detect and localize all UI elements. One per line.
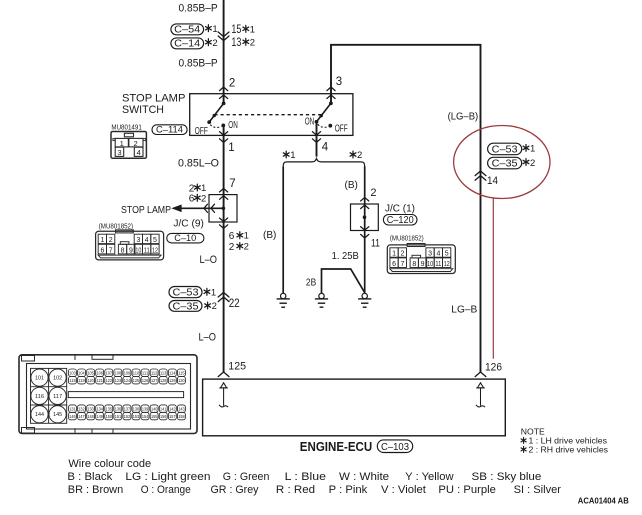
svg-text:OFF: OFF [195, 126, 208, 137]
svg-text:2: 2 [212, 38, 217, 49]
ECU internal pin symbol at 126 [476, 383, 485, 407]
middle blank slot [68, 392, 183, 398]
red highlight ellipse [454, 126, 550, 199]
ground *2 branch [358, 293, 371, 307]
pin 1 exit chevrons [220, 132, 228, 143]
component ENGINE-ECU box [203, 379, 506, 436]
svg-text:C–14: C–14 [174, 39, 200, 50]
svg-text:126: 126 [142, 378, 149, 383]
svg-text:22: 22 [229, 298, 240, 310]
note block [521, 426, 608, 454]
svg-text:153: 153 [133, 414, 140, 419]
ECU entry chevron (pin 125) [218, 372, 229, 377]
svg-text:2: 2 [530, 158, 535, 169]
svg-text:7: 7 [109, 247, 113, 254]
svg-text:(MU801852): (MU801852) [99, 223, 133, 230]
label 2*1 [189, 183, 207, 194]
svg-text:128: 128 [160, 378, 167, 383]
svg-text:117: 117 [53, 394, 62, 400]
svg-text:1: 1 [120, 139, 124, 148]
svg-text:LG : Light green: LG : Light green [125, 471, 210, 483]
pin label 13*2 [231, 37, 255, 49]
inline connector break chevrons at C-54/C-14 [218, 32, 229, 41]
svg-text:149: 149 [97, 414, 104, 419]
svg-text:145: 145 [53, 412, 62, 418]
connector label C-114 [152, 125, 187, 136]
svg-text:137: 137 [124, 407, 131, 412]
svg-text:C–53: C–53 [492, 144, 518, 155]
svg-text:C–35: C–35 [492, 159, 518, 170]
svg-text:138: 138 [133, 407, 140, 412]
svg-text:L–O: L–O [200, 254, 218, 266]
svg-text:118: 118 [69, 378, 76, 383]
J/C(9) entry chevrons [220, 188, 228, 199]
svg-text:4: 4 [137, 148, 141, 157]
svg-text:SB : Sky blue: SB : Sky blue [472, 471, 542, 483]
label *1 (left branch) [283, 150, 295, 161]
svg-text:(MU801852): (MU801852) [390, 235, 424, 242]
svg-text:150: 150 [106, 414, 113, 419]
svg-text:ON: ON [305, 116, 315, 127]
svg-text:109: 109 [124, 371, 131, 376]
label *1 [523, 144, 535, 155]
svg-text:148: 148 [87, 414, 94, 419]
svg-text:C–35: C–35 [173, 301, 199, 312]
svg-text:3: 3 [336, 76, 342, 88]
connector C-54 [171, 24, 204, 36]
pin 4 exit chevrons [312, 132, 320, 143]
svg-text:133: 133 [87, 407, 94, 412]
svg-text:C–114: C–114 [156, 125, 184, 136]
svg-text:131: 131 [69, 407, 76, 412]
wire segment 0.85L-O from switch pin 1 to ENGINE-ECU pin 125 [223, 125, 225, 372]
label *2 (right branch) [350, 150, 362, 161]
svg-text:14: 14 [487, 175, 498, 187]
label STOP LAMP SWITCH [122, 92, 185, 116]
svg-text:105: 105 [87, 371, 94, 376]
connector C-53 (left) [169, 287, 202, 299]
connector pictogram MU801852 (left) [96, 230, 164, 260]
svg-text:103: 103 [69, 371, 76, 376]
svg-text:C–103: C–103 [381, 442, 409, 453]
wire segment *1 branch (B) to ground [282, 167, 284, 294]
svg-text:C–53: C–53 [173, 288, 199, 299]
svg-text:132: 132 [78, 407, 85, 412]
red leader line [492, 198, 494, 359]
right travel arc dashed [318, 124, 329, 127]
svg-text:BR : Brown: BR : Brown [68, 484, 123, 496]
svg-text:146: 146 [69, 414, 76, 419]
svg-text:1: 1 [290, 150, 295, 161]
svg-text:2: 2 [244, 242, 249, 253]
svg-text:1: 1 [228, 142, 234, 154]
svg-text:123: 123 [115, 378, 122, 383]
svg-text:120: 120 [87, 378, 94, 383]
svg-text:12: 12 [152, 247, 158, 254]
svg-text:126: 126 [485, 361, 502, 373]
svg-text:9: 9 [129, 247, 133, 254]
svg-text:ON: ON [228, 120, 238, 131]
brace splitting wire 4 into *1 / *2 branches [283, 158, 365, 166]
svg-text:147: 147 [78, 414, 85, 419]
svg-text:GR : Grey: GR : Grey [211, 484, 260, 496]
svg-text:MU801491: MU801491 [111, 124, 141, 131]
left ON fixed contact [221, 124, 225, 128]
connector C-35 (right, circled) [488, 157, 522, 169]
svg-text:Y : Yellow: Y : Yellow [405, 471, 454, 483]
svg-text:157: 157 [169, 414, 176, 419]
svg-text:(LG–B): (LG–B) [448, 111, 479, 123]
svg-text:134: 134 [97, 407, 104, 412]
label *2 after C-14 [206, 38, 218, 49]
svg-text:1: 1 [250, 25, 255, 36]
svg-text:127: 127 [151, 378, 158, 383]
svg-text:5: 5 [153, 237, 157, 244]
svg-text:10: 10 [135, 247, 141, 254]
ECU entry chevron (pin 126) [475, 372, 486, 377]
label *2 [523, 158, 535, 169]
label 2*2 [229, 242, 249, 253]
svg-text:152: 152 [124, 414, 131, 419]
connector label C-103 [377, 440, 412, 453]
svg-text:151: 151 [115, 414, 122, 419]
svg-text:1: 1 [211, 288, 216, 299]
wire segment 0.85B-P vertical feed into switch pin 2 [223, 0, 225, 103]
svg-text:102: 102 [53, 376, 62, 382]
svg-text:1: 1 [212, 24, 217, 35]
svg-text:1. 25B: 1. 25B [332, 250, 359, 262]
svg-text:7: 7 [229, 178, 235, 190]
connector pictogram MU801852 (right) [387, 244, 455, 274]
svg-text:129: 129 [169, 378, 176, 383]
connector label C-120 [383, 215, 417, 227]
svg-text:R : Red: R : Red [276, 484, 315, 496]
svg-text:139: 139 [142, 407, 149, 412]
svg-text:112: 112 [151, 371, 158, 376]
svg-text:PU : Purple: PU : Purple [438, 484, 496, 496]
wire colour code legend [67, 458, 561, 496]
connector C-35 (left) [169, 301, 202, 313]
connector C-53 (right, circled) [488, 143, 522, 155]
connector pictogram ENGINE-ECU 144-pin [19, 355, 197, 434]
junction block J/C(1) [351, 204, 379, 231]
svg-text:4: 4 [145, 237, 149, 244]
svg-text:144: 144 [35, 412, 44, 418]
ECU internal pin symbol at 125 [219, 383, 228, 407]
svg-text:2: 2 [370, 187, 376, 199]
svg-text:2: 2 [133, 139, 137, 148]
svg-text:130: 130 [178, 378, 185, 383]
svg-text:B : Black: B : Black [67, 471, 113, 483]
svg-text:1: 1 [100, 237, 104, 244]
svg-text:(B): (B) [345, 179, 358, 191]
connector C-14 [171, 38, 204, 50]
svg-text:101: 101 [35, 376, 44, 382]
svg-text:0.85L–O: 0.85L–O [178, 157, 219, 169]
svg-text:1: 1 [530, 144, 535, 155]
ground 2B [315, 293, 328, 307]
svg-text:140: 140 [151, 407, 158, 412]
svg-text:136: 136 [115, 407, 122, 412]
svg-text:11: 11 [371, 237, 380, 249]
svg-text:114: 114 [169, 371, 176, 376]
svg-text:125: 125 [133, 378, 140, 383]
label *1 after C-54 [206, 24, 218, 35]
wire segment 2B ground branch [322, 269, 365, 293]
svg-text:2B: 2B [306, 276, 316, 288]
svg-text:119: 119 [78, 378, 85, 383]
svg-text:G : Green: G : Green [223, 471, 270, 483]
svg-text:3: 3 [136, 237, 140, 244]
J/C(9) left exit chevrons [204, 204, 215, 212]
mechanical link dashed line [214, 114, 321, 116]
svg-text:L–O: L–O [199, 332, 217, 344]
J/C(9) exit chevrons [220, 218, 228, 228]
svg-text:SWITCH: SWITCH [122, 104, 164, 116]
svg-text:1: 1 [244, 231, 249, 242]
svg-text:2: 2 [357, 150, 362, 161]
component STOP LAMP SWITCH box [190, 94, 353, 136]
svg-text:V : Violet: V : Violet [381, 484, 426, 496]
svg-text:110: 110 [133, 371, 140, 376]
wire segment pin 4 stub [316, 122, 318, 157]
connector pictogram MU801491 [111, 124, 146, 158]
branch wire to STOP LAMP with arrow [171, 205, 223, 213]
svg-text:STOP LAMP: STOP LAMP [122, 92, 185, 104]
label 6*2 [189, 193, 207, 204]
svg-text:C–54: C–54 [174, 25, 200, 36]
svg-text:154: 154 [142, 414, 149, 419]
svg-text:2: 2 [229, 78, 235, 90]
inline connector break chevrons at pin 14 [475, 171, 486, 180]
svg-text:115: 115 [178, 371, 185, 376]
svg-text:2: 2 [212, 301, 217, 312]
svg-text:(B): (B) [263, 229, 276, 241]
svg-text:11: 11 [144, 247, 150, 254]
svg-text:8: 8 [121, 247, 125, 254]
svg-text:0.85B–P: 0.85B–P [179, 57, 218, 69]
svg-text:104: 104 [78, 371, 85, 376]
label 6*1 [229, 231, 249, 242]
svg-text:3: 3 [117, 148, 121, 157]
wire segment from switch pin 3 up and across to right column [331, 45, 481, 373]
svg-text:155: 155 [151, 414, 158, 419]
svg-text:125: 125 [228, 360, 246, 372]
svg-text:113: 113 [160, 371, 167, 376]
svg-text:OFF: OFF [335, 123, 348, 134]
svg-text:122: 122 [106, 378, 113, 383]
svg-text:ACA01404 AB: ACA01404 AB [578, 496, 629, 505]
svg-text:C–120: C–120 [387, 215, 415, 226]
switch pole left (pin2-pin1) lever [207, 102, 225, 125]
svg-text:4: 4 [322, 141, 329, 153]
svg-text:W : White: W : White [339, 471, 389, 483]
svg-text:LG–B: LG–B [451, 304, 477, 316]
svg-text:ENGINE-ECU: ENGINE-ECU [300, 440, 372, 454]
pin label 15*1 [231, 24, 255, 36]
label *2 [205, 301, 217, 312]
svg-text:2: 2 [109, 237, 113, 244]
svg-text:1 : LH drive vehicles: 1 : LH drive vehicles [529, 436, 608, 445]
svg-text:6: 6 [100, 247, 104, 254]
svg-text:NOTE: NOTE [521, 426, 545, 436]
switch pole right (pin3-pin4) lever [315, 101, 333, 123]
svg-text:156: 156 [160, 414, 167, 419]
label *1 [204, 288, 216, 299]
svg-text:0.85B–P: 0.85B–P [179, 2, 218, 14]
svg-text:6: 6 [229, 231, 235, 242]
svg-text:143: 143 [178, 407, 185, 412]
J/C(1) entry chevrons [361, 197, 369, 208]
svg-text:Wire colour code: Wire colour code [68, 458, 151, 470]
svg-text:142: 142 [169, 407, 176, 412]
svg-text:116: 116 [35, 394, 44, 400]
svg-text:O : Orange: O : Orange [141, 484, 191, 496]
J/C(1) exit chevrons [361, 227, 369, 238]
ground *1 branch [277, 293, 290, 307]
svg-text:124: 124 [124, 378, 131, 383]
round terminal grid 101/102/116/117/144/145 [31, 368, 67, 423]
svg-text:2: 2 [250, 38, 255, 49]
svg-text:2: 2 [201, 193, 206, 204]
junction block J/C(9) [209, 195, 237, 222]
svg-text:111: 111 [142, 371, 149, 376]
svg-text:13: 13 [231, 37, 241, 49]
svg-text:141: 141 [160, 407, 167, 412]
svg-text:15: 15 [231, 24, 241, 36]
inline connector break chevrons at C-53/C-35 (left) [218, 292, 229, 301]
svg-text:158: 158 [178, 414, 185, 419]
wire segment *2 branch (B) through J/C(1) to ground [364, 167, 366, 294]
svg-text:J/C (9): J/C (9) [173, 217, 204, 229]
left travel arc dashed [210, 125, 221, 128]
svg-text:108: 108 [115, 371, 122, 376]
svg-text:6: 6 [189, 194, 195, 205]
svg-text:L : Blue: L : Blue [285, 471, 326, 483]
svg-text:C–10: C–10 [174, 233, 196, 244]
pin 2 entry chevrons [220, 87, 228, 99]
connector label C-10 [167, 233, 204, 244]
pin 3 entry chevrons [327, 87, 335, 99]
svg-text:P : Pink: P : Pink [329, 484, 368, 496]
svg-text:2: 2 [229, 242, 235, 253]
right OFF fixed contact [328, 124, 332, 128]
small terminal rows [69, 369, 186, 420]
svg-text:J/C (1): J/C (1) [385, 203, 415, 215]
svg-text:SI : Silver: SI : Silver [514, 484, 562, 496]
svg-text:121: 121 [97, 378, 104, 383]
svg-text:106: 106 [97, 371, 104, 376]
svg-text:107: 107 [106, 371, 113, 376]
svg-text:STOP LAMP: STOP LAMP [121, 205, 171, 216]
svg-text:135: 135 [106, 407, 113, 412]
svg-text:2 : RH drive vehicles: 2 : RH drive vehicles [529, 445, 609, 454]
